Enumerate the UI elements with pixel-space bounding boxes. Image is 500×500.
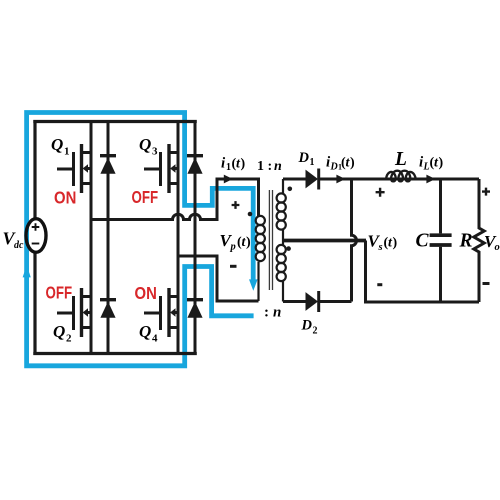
label + (Vp) bbox=[232, 201, 240, 209]
label Vs(t) bbox=[368, 232, 398, 254]
svg-text:D: D bbox=[330, 162, 338, 173]
center tap to output bottom rail bbox=[366, 241, 480, 303]
svg-text:Q: Q bbox=[139, 322, 151, 341]
svg-text:D: D bbox=[298, 150, 310, 166]
diode (body of Q4) bbox=[187, 298, 203, 301]
svg-text:OFF: OFF bbox=[132, 188, 159, 207]
wire secondary bottom to D2 bbox=[283, 300, 306, 303]
primary polarity dot bbox=[248, 212, 253, 217]
svg-text:ON: ON bbox=[135, 284, 157, 303]
svg-text:1: 1 bbox=[64, 146, 70, 158]
highlighted current loop (cyan) bbox=[27, 113, 254, 366]
svg-text:): ) bbox=[241, 157, 246, 172]
label - (Vo) bbox=[483, 282, 490, 285]
transistor Q4 (MOSFET) bbox=[144, 256, 178, 354]
svg-text:): ) bbox=[350, 156, 355, 171]
source Vdc bbox=[26, 219, 46, 253]
svg-text:L: L bbox=[394, 149, 407, 170]
svg-text:1: 1 bbox=[226, 162, 231, 173]
svg-text:2: 2 bbox=[313, 326, 318, 337]
svg-text:dc: dc bbox=[14, 240, 24, 251]
svg-text:1: 1 bbox=[310, 157, 315, 168]
label : n bbox=[264, 305, 281, 321]
svg-text:Q: Q bbox=[53, 322, 65, 341]
svg-text:1 :: 1 : bbox=[257, 159, 272, 174]
label i1(t) bbox=[221, 156, 246, 174]
transformer secondary top winding bbox=[277, 179, 286, 241]
label L bbox=[394, 149, 407, 170]
inductor L bbox=[386, 171, 416, 182]
bridge left rail (wire) bbox=[33, 120, 36, 355]
diode (body of Q2) bbox=[100, 298, 116, 301]
diode D2 bbox=[306, 292, 319, 311]
svg-text:3: 3 bbox=[152, 146, 158, 158]
label + (Vo) bbox=[482, 188, 490, 196]
label ON (Q4) bbox=[135, 284, 157, 303]
svg-text:): ) bbox=[393, 236, 398, 251]
svg-text:o: o bbox=[495, 242, 500, 253]
bridge top rail bbox=[33, 120, 197, 123]
label 1 : n bbox=[257, 159, 282, 174]
wire D2 cathode to node X bbox=[319, 300, 352, 303]
capacitor C branch wire bbox=[439, 179, 442, 302]
label + (Vs) bbox=[376, 188, 385, 197]
label ON (Q1) bbox=[54, 188, 76, 207]
current arrow i1 bbox=[224, 175, 233, 184]
label Vo bbox=[484, 232, 500, 253]
svg-text:C: C bbox=[416, 231, 430, 252]
current arrow up (left of source) bbox=[23, 265, 31, 277]
svg-text:s: s bbox=[378, 242, 383, 253]
label - (Vs) bbox=[377, 283, 382, 286]
svg-text:4: 4 bbox=[152, 333, 158, 345]
svg-text:OFF: OFF bbox=[46, 284, 73, 303]
svg-text:R: R bbox=[459, 231, 473, 252]
transistor Q2 (MOSFET) bbox=[57, 220, 91, 354]
secondary top polarity dot bbox=[288, 187, 293, 192]
transformer primary winding bbox=[256, 179, 265, 301]
svg-text:ON: ON bbox=[54, 188, 76, 207]
diode D1 bbox=[306, 170, 319, 189]
label Vp(t) bbox=[220, 231, 252, 253]
svg-text::: : bbox=[264, 305, 269, 321]
label OFF (Q3) bbox=[132, 188, 159, 207]
label D1 bbox=[298, 150, 315, 168]
label Q2 bbox=[53, 322, 72, 345]
label Q3 bbox=[139, 135, 158, 158]
svg-text:Q: Q bbox=[139, 135, 151, 154]
wire secondary top to D1 bbox=[283, 178, 306, 181]
diode (body of Q3) bbox=[187, 122, 203, 354]
center tap wire (thick) bbox=[283, 239, 366, 243]
current arrow iL bbox=[426, 175, 435, 184]
svg-text:Q: Q bbox=[51, 135, 63, 154]
transistor Q3 arrow bbox=[170, 164, 175, 173]
svg-text:p: p bbox=[230, 242, 236, 253]
current arrow iD1 bbox=[336, 175, 345, 184]
label OFF (Q2) bbox=[46, 284, 73, 303]
transistor Q4 arrow bbox=[170, 308, 175, 317]
diode (body of Q1) bbox=[100, 122, 116, 354]
capacitor C plates bbox=[430, 235, 452, 245]
svg-text:): ) bbox=[439, 156, 444, 171]
resistor R branch (right rail) bbox=[474, 179, 484, 302]
wire leg-B midpoint to primary bottom bbox=[178, 256, 259, 301]
svg-text:n: n bbox=[274, 159, 282, 174]
label D2 bbox=[301, 318, 318, 337]
wire D1 to junction with arrow iD1 bbox=[319, 178, 479, 181]
bridge bottom rail bbox=[33, 352, 197, 355]
label iD1(t) bbox=[326, 155, 355, 173]
label Vdc bbox=[3, 228, 25, 251]
secondary bottom polarity dot bbox=[286, 246, 291, 251]
label Q4 bbox=[139, 322, 158, 345]
svg-text:): ) bbox=[246, 235, 251, 250]
svg-text:D: D bbox=[301, 318, 313, 334]
label iL(t) bbox=[419, 155, 444, 173]
label - (Vp) bbox=[230, 265, 237, 268]
current arrow down (through primary) bbox=[249, 279, 258, 290]
transformer secondary bottom winding bbox=[277, 241, 286, 302]
transistor Q1 (MOSFET) bbox=[57, 122, 91, 220]
label R bbox=[459, 231, 473, 252]
transistor Q1 arrow bbox=[83, 164, 88, 173]
transformer core bbox=[269, 190, 272, 290]
label C bbox=[416, 231, 430, 252]
label Q1 bbox=[51, 135, 70, 158]
transistor Q3 (MOSFET) bbox=[144, 122, 178, 257]
svg-text:2: 2 bbox=[66, 333, 72, 345]
node X vertical (D1/D2 cathodes) with hop over center tap bbox=[352, 179, 357, 302]
svg-text:n: n bbox=[273, 305, 281, 321]
wire leg-A midpoint to primary top (with hops) bbox=[91, 179, 259, 220]
transistor Q2 arrow bbox=[83, 308, 88, 317]
